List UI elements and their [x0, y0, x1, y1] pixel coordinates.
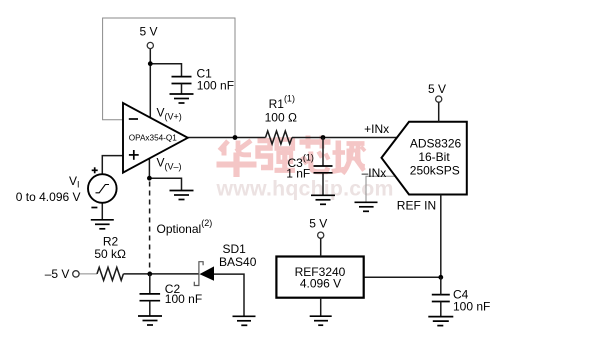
svg-text:OPAx354-Q1: OPAx354-Q1: [129, 134, 178, 143]
svg-text:50 kΩ: 50 kΩ: [94, 247, 126, 261]
svg-text:100 nF: 100 nF: [165, 292, 202, 306]
svg-text:16-Bit: 16-Bit: [418, 150, 450, 164]
svg-text:BAS40: BAS40: [219, 255, 257, 269]
svg-text:ADS8326: ADS8326: [410, 137, 462, 151]
svg-text:5 V: 5 V: [139, 25, 157, 39]
svg-text:REF IN: REF IN: [397, 198, 436, 212]
svg-text:250kSPS: 250kSPS: [410, 164, 460, 178]
svg-text:+INx: +INx: [364, 122, 389, 136]
svg-text:4.096 V: 4.096 V: [300, 276, 341, 290]
svg-text:5 V: 5 V: [428, 82, 446, 96]
svg-text:100 nF: 100 nF: [453, 300, 490, 314]
svg-text:100 Ω: 100 Ω: [265, 110, 297, 124]
svg-text:5 V: 5 V: [309, 216, 327, 230]
svg-text:–5 V: –5 V: [45, 267, 70, 281]
svg-text:100 nF: 100 nF: [197, 78, 234, 92]
svg-text:1 nF: 1 nF: [286, 167, 310, 181]
svg-text:–INx: –INx: [362, 166, 387, 180]
svg-text:0 to 4.096 V: 0 to 4.096 V: [16, 190, 81, 204]
